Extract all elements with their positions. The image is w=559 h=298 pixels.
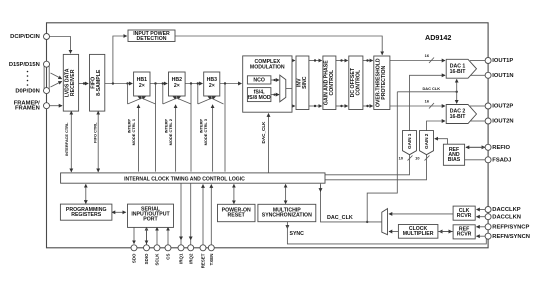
svg-text:AD9142: AD9142 (425, 33, 451, 42)
svg-text:MODULATION: MODULATION (250, 65, 285, 71)
svg-text:D15P/D15N: D15P/D15N (9, 62, 40, 68)
svg-text:10: 10 (415, 156, 419, 161)
svg-text:D0P/D0N: D0P/D0N (15, 88, 39, 94)
svg-text:fS/8 MOD: fS/8 MOD (248, 95, 271, 101)
svg-text:2×: 2× (139, 83, 145, 89)
svg-text:2×: 2× (174, 83, 180, 89)
svg-text:INTERNAL CLOCK TIMING AND CONT: INTERNAL CLOCK TIMING AND CONTROL LOGIC (124, 176, 245, 182)
svg-text:IRQ2: IRQ2 (188, 253, 193, 264)
svg-text:GAIN 1: GAIN 1 (407, 133, 412, 149)
svg-text:2×: 2× (209, 83, 215, 89)
svg-text:CONTROL: CONTROL (355, 69, 361, 95)
svg-text:RESET: RESET (228, 212, 246, 218)
svg-text:DACCLKP: DACCLKP (492, 207, 520, 213)
svg-text:IOUT2P: IOUT2P (492, 104, 513, 110)
svg-text:REFP/SYNCP: REFP/SYNCP (492, 225, 529, 231)
svg-text:FRAMEN: FRAMEN (15, 106, 40, 112)
svg-text:REFIO: REFIO (492, 145, 510, 151)
svg-text:SYNCHRONIZATION: SYNCHRONIZATION (262, 212, 312, 218)
svg-text:DAC CLK: DAC CLK (423, 86, 441, 91)
svg-text:16-BIT: 16-BIT (450, 69, 467, 75)
svg-text:DACCLKN: DACCLKN (492, 214, 521, 220)
svg-text:RCVR: RCVR (457, 213, 472, 219)
svg-text:BIAS: BIAS (448, 157, 461, 163)
svg-text:SCLK: SCLK (155, 253, 160, 266)
svg-text:SDIO: SDIO (144, 253, 149, 264)
svg-text:REGISTERS: REGISTERS (71, 212, 102, 218)
svg-text:FSADJ: FSADJ (492, 158, 511, 164)
svg-text:PORT: PORT (143, 217, 158, 223)
svg-text:MULTIPLIER: MULTIPLIER (403, 231, 434, 237)
svg-text:INTERFACE CTRL: INTERFACE CTRL (64, 122, 69, 156)
svg-text:IOUT1N: IOUT1N (492, 73, 513, 79)
svg-text:RESET: RESET (201, 253, 206, 268)
svg-text:SYNC: SYNC (290, 231, 305, 237)
svg-text:NCO: NCO (253, 78, 265, 84)
svg-text:SDO: SDO (132, 253, 137, 263)
svg-text:GAIN 2: GAIN 2 (424, 133, 429, 149)
svg-text:REFN/SYNCN: REFN/SYNCN (492, 234, 530, 240)
svg-text:16-BIT: 16-BIT (450, 114, 467, 120)
svg-text:8-SAMPLE: 8-SAMPLE (96, 69, 102, 96)
svg-text:DAC_CLK: DAC_CLK (261, 121, 266, 144)
svg-text:TXEN: TXEN (209, 254, 214, 266)
svg-text:IRQ1: IRQ1 (179, 253, 184, 264)
svg-text:FIFO CTRL: FIFO CTRL (93, 122, 98, 143)
svg-text:IOUT1P: IOUT1P (492, 58, 513, 64)
svg-text:IOUT2N: IOUT2N (492, 119, 513, 125)
svg-text:SINC: SINC (302, 76, 308, 89)
svg-text:MODE CTRL 2: MODE CTRL 2 (168, 118, 173, 145)
svg-text:MODE CTRL 3: MODE CTRL 3 (203, 118, 208, 145)
svg-text:DCIP/DCIN: DCIP/DCIN (10, 34, 40, 40)
svg-text:RCVR: RCVR (457, 232, 472, 238)
svg-text:CONTROL: CONTROL (329, 69, 335, 95)
svg-text:MODE CTRL 1: MODE CTRL 1 (131, 118, 136, 145)
svg-text:CS: CS (166, 254, 171, 260)
svg-text:RECEIVER: RECEIVER (70, 69, 76, 96)
svg-text:DAC_CLK: DAC_CLK (327, 215, 353, 221)
svg-text:PROTECTION: PROTECTION (381, 65, 387, 99)
svg-text:DETECTION: DETECTION (137, 36, 167, 42)
svg-text:10: 10 (399, 156, 403, 161)
